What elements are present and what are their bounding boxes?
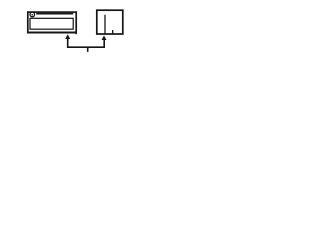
thick bottom edge of U1 [27, 32, 76, 34]
wire stem to U1 [67, 38, 69, 48]
arrowhead into U1 [65, 34, 70, 39]
tick in U2 [112, 30, 114, 34]
device box U1 (left unit) [28, 12, 76, 32]
arrowhead into U2 [102, 36, 107, 41]
knob on U1 [30, 12, 35, 17]
device box U2 (right unit) [97, 10, 123, 34]
wire bus (horizontal) [67, 46, 105, 48]
top panel line of U1 [36, 13, 73, 15]
divider line in U2 [104, 15, 106, 34]
wire stub (down from bus) [87, 47, 89, 52]
corner foot of U1 right border [75, 33, 77, 35]
wire stem to U2 [103, 39, 105, 48]
inner panel rect of U1 [30, 18, 73, 29]
